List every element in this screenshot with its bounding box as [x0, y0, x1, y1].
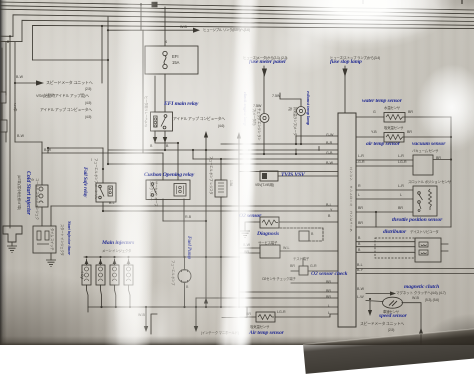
wire label BR [244, 250, 249, 254]
wire stub y36 left edge [0, 35, 13, 37]
junction dot (115.8,307) [115, 306, 117, 308]
wire coldstart feed [9, 226, 11, 228]
wire bus line 6 with left turn-down [33, 25, 474, 60]
junction dot (165,66.5) [163, 64, 167, 68]
junction dot (376,212) [375, 211, 377, 213]
arrow fuse stop down [342, 69, 347, 78]
wire ECU in y144b [221, 143, 240, 145]
wire label B [166, 144, 168, 148]
label speedometer jp [46, 80, 93, 86]
wire dist 1 [356, 241, 415, 243]
ground symbol O2 [240, 231, 250, 238]
wire br return y227 [356, 226, 451, 228]
label throttle position sensor blue [392, 217, 442, 223]
junction dot (8,41.6) [7, 41, 9, 43]
pump resistor box [215, 180, 227, 197]
label main injectors jp [102, 248, 131, 253]
label fuse meter jp [243, 55, 287, 60]
label heater jp vertical [144, 96, 149, 130]
junction dot (193,150) [192, 149, 194, 151]
junction dot (206,221) [205, 220, 207, 222]
label air temp sensor blue right [366, 141, 400, 147]
label water temp jp [384, 105, 400, 110]
junction dot (178,143) [177, 142, 179, 144]
wire x103 failsafe feed [102, 148, 104, 183]
wire label BR [326, 280, 331, 284]
junction dot (128.5,257) [127, 256, 129, 258]
junction dot (165,53.5) [163, 51, 167, 55]
EFI main relay box U1 [151, 112, 173, 131]
label cold start jp vertical [17, 175, 22, 231]
arrow magnetic clutch right [390, 291, 396, 295]
arrow x196 down [194, 326, 198, 332]
wire label L-W [357, 295, 364, 299]
junction dot (146,307) [145, 306, 147, 308]
label o2 check jp [262, 276, 296, 281]
wire label BR [246, 312, 251, 316]
fuse EFI 15A box [145, 46, 198, 74]
wire label L [400, 193, 402, 197]
wire label 7.5W [272, 94, 280, 98]
label check engine lamp blue vertical [243, 92, 248, 131]
label air temp bottom jp [250, 324, 269, 329]
wire dist 3 [356, 251, 415, 253]
junction dot (451,117) [450, 116, 452, 118]
fail safe relay box [96, 183, 116, 202]
wire label B-L [109, 201, 115, 205]
junction dot (48,148) [47, 147, 49, 149]
water temp sensor resistor [384, 113, 405, 123]
label Diagnosis blue [257, 231, 279, 237]
wire label R [358, 184, 361, 188]
connector square on bus [152, 2, 158, 8]
wire fuel pump top [184, 257, 186, 269]
label magnetic clutch blue [404, 284, 439, 290]
label fuel pump jp vertical [171, 260, 176, 292]
wire y159 long to ECU [193, 158, 338, 160]
wire label EFI 15A [172, 54, 179, 65]
label EFI main relay blue [164, 101, 198, 107]
TVIS VSV box [260, 171, 278, 181]
wire label BR [398, 206, 403, 210]
check engine lamp [260, 114, 269, 123]
wire label B [358, 248, 360, 252]
wire bl y268 [356, 268, 474, 270]
diagnosis small box [299, 231, 309, 241]
injector I4 [124, 265, 133, 285]
arrow speedometer [36, 80, 44, 85]
O2 check terminal box [299, 266, 308, 275]
wire ECU y298 [196, 297, 338, 299]
wire o2check left [291, 270, 299, 272]
label air temp jp right [384, 125, 403, 130]
label MT car jp vertical [13, 103, 18, 118]
junction dot (370,299) [369, 298, 371, 300]
wire label B-L [326, 203, 332, 207]
wire bottom x151 [151, 314, 157, 334]
label idle up computer 2 jp [173, 117, 225, 122]
wire jog x376 [375, 212, 377, 227]
label coil jp vertical [30, 178, 40, 222]
arrow x206 up [204, 131, 208, 138]
label speedo bottom jp [360, 322, 404, 327]
junction dot (184.5,276) [178, 270, 191, 283]
wire vertical x108 long [107, 17, 109, 164]
wire magnetic clutch [366, 293, 390, 295]
O2 sensor resistor [260, 217, 279, 228]
label Fuel Pump blue vertical [186, 236, 192, 263]
label fuse stop jp [330, 55, 380, 60]
wire left edge box feeds [2, 48, 6, 142]
arrow x239 up [237, 132, 241, 139]
wire bus line 1 [0, 2, 474, 10]
label Main injectors blue [102, 240, 134, 246]
wire bottom right L [222, 307, 247, 318]
wire x206 vertical [205, 135, 207, 307]
label fusible link jp [203, 27, 250, 32]
label fail safe jp vertical [89, 158, 99, 202]
distributor box [415, 238, 441, 262]
label throttle jp [408, 179, 451, 184]
wire airtemp left [240, 316, 256, 318]
arrow fusible link [193, 28, 200, 33]
junction dot (86.5,257) [85, 256, 87, 258]
wire cushion bottom right [183, 199, 185, 257]
wire label B-Y [357, 268, 363, 272]
junction dot (296,154) [295, 153, 297, 155]
vacuum sensor box [413, 155, 433, 175]
label lamp jp 2 [288, 107, 298, 137]
wire label BR [326, 289, 331, 293]
wire ECU in y164 [108, 163, 338, 165]
label Air temp sensor blue bottom [249, 330, 284, 336]
wire ECU in y136 [296, 135, 338, 137]
junction dot (15,83) [14, 82, 16, 84]
wire vacuum br [433, 159, 451, 161]
wire injector bus y307 [88, 306, 247, 308]
wire label BR [436, 156, 441, 160]
junction dot (108,164) [107, 163, 109, 165]
label distributor blue [383, 229, 406, 235]
wire speed sensor right [402, 303, 421, 345]
exhaust temp lamp [297, 107, 306, 116]
label idle up computer jp [40, 108, 92, 113]
wire relay out left stub [155, 131, 178, 143]
wire water temp right [405, 116, 451, 118]
wire label G-R [310, 264, 317, 268]
wire left col vertical B [9, 36, 11, 226]
wire label B-R [326, 141, 332, 145]
wire ECU y206 [51, 205, 338, 207]
wire fuel pump bottom [184, 283, 186, 307]
left edge connector box B [0, 120, 7, 132]
label ECU internal vertical [343, 167, 354, 257]
start injector timer box [33, 226, 56, 253]
cold start injector body [3, 226, 22, 242]
wire label BR [290, 264, 295, 268]
wire label L-R [358, 154, 364, 158]
wire jog x42 [41, 142, 43, 153]
label VSV jp [255, 182, 274, 187]
wire label LG-R [398, 160, 407, 164]
junction dot (451,159.5) [450, 158, 452, 160]
wire diag left br [240, 252, 260, 254]
wire left col vertical A [5, 42, 7, 95]
wire y150 long [108, 149, 338, 151]
wire dist stubs right [441, 244, 448, 251]
wire bus line 3 [0, 9, 474, 17]
wire ECU in y154 [240, 153, 338, 155]
wire throttle l [356, 198, 413, 200]
wire diag left bw [240, 247, 260, 249]
wire label B-W [44, 148, 51, 152]
wire x48 jog [47, 148, 49, 153]
speed sensor oval [383, 297, 403, 308]
wire throttle br [356, 211, 413, 213]
label intake jp [201, 330, 239, 335]
label Start injector timer blue vertical [67, 221, 72, 263]
junction dot (296,144) [295, 143, 297, 145]
wire ECU y307b [240, 306, 338, 308]
wire x163 to cushion relay [162, 153, 164, 180]
wire label B [311, 232, 313, 236]
label vacuum sensor blue [412, 141, 445, 147]
wire label W-B [180, 25, 187, 29]
label magnetic clutch jp [396, 291, 446, 296]
label TVIS VSV blue [281, 172, 305, 178]
label lamp jp 1 [252, 108, 262, 142]
wire right vertical x457 [450, 117, 452, 227]
wire label BR [407, 130, 412, 134]
label speed sensor blue [379, 313, 407, 319]
wire ECU y211 [103, 210, 338, 212]
wire x178 cushion feed [177, 143, 179, 180]
wire label Y [330, 208, 332, 212]
wire timer ground drop [50, 253, 52, 260]
wire y148 [48, 147, 103, 149]
wire label G [373, 110, 376, 114]
wire label W-L [283, 246, 290, 250]
wire label R-B [185, 215, 191, 219]
wire label B-W [17, 134, 24, 138]
junction dot (221,307) [220, 306, 222, 308]
junction dot (165,150) [164, 149, 166, 151]
wire injector bus y257 [84, 256, 239, 258]
wire lamp1 feed [263, 66, 265, 113]
arrow relay out left [153, 137, 157, 143]
wire bus line 2 [0, 6, 474, 14]
junction dot (100.5,257) [99, 256, 101, 258]
wire vertical x165 fuse feed [164, 7, 166, 46]
label O2 sensor blue [239, 213, 261, 219]
junction dot (108,60) [107, 59, 109, 61]
wire label Y-B [371, 130, 377, 134]
cold start injector coil box [36, 185, 48, 207]
injector I3 [110, 265, 119, 285]
wire vacuum lgr [356, 165, 413, 167]
wire x42 down to coil box [41, 153, 43, 185]
wire label LG-R [356, 160, 365, 164]
junction dot (184.5,257) [183, 256, 185, 258]
junction dot (221,159) [220, 158, 222, 160]
arrow injector tops [85, 260, 131, 265]
wire bus line 5 with left turn-down [22, 20, 474, 41]
wire x196b down [195, 298, 197, 326]
ground symbol timer [46, 260, 56, 267]
label O2 sensor check blue [311, 271, 347, 277]
junction dot (451,137) [450, 136, 452, 138]
wire fusible link arrow line y30 [108, 29, 193, 31]
junction dot (103,202) [102, 201, 104, 203]
wire label L [328, 304, 330, 308]
distributor shield dashed box [375, 238, 415, 258]
arrow speed sensor down [368, 310, 372, 316]
wire label L-R [398, 154, 404, 158]
wire horizontal y60 [33, 59, 109, 61]
wire lamp2 top jog [280, 93, 301, 106]
junction dot (130,307) [129, 306, 131, 308]
wire label B [328, 214, 330, 218]
label VSV idle jp [36, 94, 89, 99]
wire throttle lr [356, 189, 413, 191]
junction dot (301,144) [300, 143, 302, 145]
wire o2 dashed [280, 228, 323, 241]
ground symbol cold start [7, 246, 17, 253]
label water temp sensor blue [362, 98, 402, 104]
wire relay out right stub [164, 131, 166, 150]
wire label G-B [326, 151, 332, 155]
label fuse meter panel blue [249, 59, 285, 65]
arrow x146 down [144, 326, 148, 332]
wire bus line 4 with left turn-down [13, 15, 474, 37]
wire ECU y283 [291, 282, 338, 284]
wire label L [358, 193, 360, 197]
wire label BR [358, 221, 363, 225]
wire label 4 Cyl [80, 271, 84, 279]
wire diag right [280, 250, 338, 252]
wire speed sensor left [366, 301, 383, 311]
wire speedometer line y83 [15, 82, 36, 84]
wire label BR [358, 206, 363, 210]
wire by y273 [356, 273, 474, 275]
wire jog x296 [296, 136, 319, 154]
wire injector drops [87, 259, 129, 265]
wire x221 resistor down [220, 197, 222, 307]
wire vertical x143 heater [142, 30, 144, 153]
wire y153 long [42, 152, 163, 154]
label opening relay jp vertical [149, 181, 159, 207]
wire o2 right [279, 221, 338, 223]
arrow x421 up [419, 328, 423, 335]
wire test terminal stub [302, 258, 304, 266]
wire vertical x141 from bus1 [140, 4, 142, 30]
wire label 7.5W [253, 104, 261, 108]
label pump resistor jp vertical [209, 156, 214, 200]
page corner shadow bottom-right [303, 326, 474, 374]
wire coldstart ground drop [11, 242, 13, 246]
wire label B-W [357, 287, 364, 291]
wire label B [358, 236, 360, 240]
air temp sensor resistor (right) [384, 133, 404, 143]
wire ECU y292 [240, 291, 338, 293]
junction dot (239,307) [238, 306, 240, 308]
wire vertical x102 from bus6 [101, 26, 103, 83]
wire label L-R [398, 184, 404, 188]
label vacuum jp [412, 148, 438, 153]
wire vsv out [278, 175, 338, 177]
junction dot (103,211) [102, 210, 104, 212]
wire x155 fuse to relay coil [154, 76, 156, 112]
wire x239 vertical [238, 136, 240, 307]
arrow x206 mid up [204, 298, 208, 304]
label distributor jp [410, 229, 439, 234]
wire x193 jog [192, 150, 194, 159]
junction dot (102,26) [101, 25, 103, 27]
wire vacuum lr [356, 159, 413, 161]
wire ECU in y171 [240, 171, 338, 173]
wire stop lamp feed to ECU top [344, 66, 346, 113]
junction dot (141,4.4) [140, 3, 142, 5]
cushion opening relay box [146, 180, 190, 200]
wire label B-W [243, 243, 250, 247]
label speed sensor jp [383, 309, 399, 314]
label Cushon Opening relay blue [144, 172, 194, 178]
wire label BR [408, 110, 413, 114]
label fuse stop lamp blue [330, 59, 362, 65]
junction dot (108,30.2) [107, 29, 109, 31]
wire label W-B [412, 296, 419, 300]
throttle position sensor box [413, 186, 437, 216]
junction dot (114.5,257) [113, 256, 115, 258]
wire stub y41 left edge [0, 41, 22, 43]
junction dot (264,154) [263, 153, 265, 155]
arrow fuse meter down [262, 69, 267, 78]
wire x42 coil to timer [41, 207, 43, 226]
wire label L [328, 311, 330, 315]
wire label 4 [165, 40, 167, 44]
arrow relay out right [163, 137, 167, 143]
wire injector bottoms [87, 285, 131, 307]
wire dist 2 [356, 246, 415, 248]
injector I1 [82, 265, 91, 285]
junction dot (184.5,307) [183, 306, 185, 308]
wire timer to y206 [50, 206, 52, 226]
wire label B-W [326, 161, 333, 165]
wire label LG-R [277, 310, 286, 314]
wire label W-B [138, 313, 145, 317]
wire lamp2 out [300, 116, 302, 144]
label Cold Start injector blue vertical [25, 171, 31, 233]
air temp sensor resistor (bottom) [256, 312, 275, 322]
wire x88 bus end down [87, 307, 89, 312]
junction dot (10,36.3) [9, 35, 11, 37]
diagnosis connector box [260, 245, 280, 258]
wire y221 rb [163, 220, 206, 222]
label exhaust temp lamp blue vertical [306, 91, 311, 128]
tick top x363 [362, 0, 363, 4]
injector I2 [96, 265, 105, 285]
wire y142 [15, 141, 42, 143]
wire label G-W [326, 133, 333, 137]
wire fuse out to relay [164, 74, 166, 112]
wire air temp left [356, 136, 384, 138]
wire o2check right [308, 270, 338, 272]
wire left col vertical C [14, 42, 16, 142]
wire cushion bottom left [162, 199, 164, 221]
left edge connector box A [0, 92, 6, 103]
wire failsafe down [102, 202, 104, 211]
wire x146 down [145, 307, 147, 326]
